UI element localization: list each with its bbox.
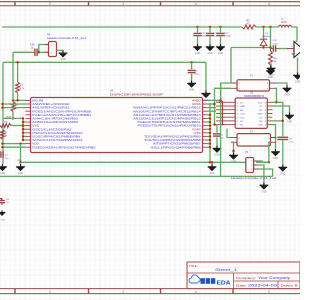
ground lower left (0, 211, 5, 222)
U1 left pin extensions (216, 101, 230, 126)
svg-text:GND: GND (209, 172, 215, 175)
resistor R5 (11, 102, 20, 112)
junction W1 cap C13 (219, 26, 221, 28)
ground C9 (213, 146, 222, 157)
junction W1/R10 branch (269, 26, 271, 28)
wire W1 right segment (256, 26, 279, 28)
ground U1 pin2 (285, 113, 294, 124)
svg-text:Header-Female-2.54_1x3: Header-Female-2.54_1x3 (231, 176, 277, 180)
wire W1 branch to W3 (270, 27, 272, 48)
wire opamp plus input to gnd (297, 58, 299, 73)
svg-text:5: 5 (268, 290, 270, 294)
svg-text:Date:: Date: (236, 284, 247, 288)
wire U2 right row1 (208, 99, 222, 101)
svg-text:PGED3/ASDA1/RP5/CN27/PMD7/RB5: PGED3/ASDA1/RP5/CN27/PMD7/RB5 (32, 145, 96, 149)
svg-text:GND: GND (268, 73, 274, 76)
svg-text:Company:: Company: (236, 276, 256, 280)
header P1 label (246, 151, 250, 154)
junction W1 cap C11 (209, 26, 211, 28)
svg-text:3: 3 (122, 2, 124, 6)
ground P4 (59, 50, 68, 61)
capacitor C10 (194, 27, 207, 44)
wire T1 pin1 west drop (221, 83, 231, 102)
svg-text:4: 4 (195, 290, 197, 294)
title block (187, 262, 300, 289)
ground C10 (193, 44, 202, 55)
svg-text:Your Company: Your Company (258, 276, 290, 280)
wire T2 pin1 west (227, 129, 231, 138)
wires U2 right pins to collector (208, 114, 212, 149)
wire U2 right row4 (208, 110, 217, 112)
ground left col (0, 164, 7, 175)
svg-text:GND: GND (261, 190, 267, 193)
IC U2 dsPIC33 (26, 98, 208, 153)
ground x20 col (16, 164, 25, 175)
wire U2 right collector (209, 103, 211, 162)
junction T2 gnd wire (232, 150, 234, 152)
op-amp U4 (287, 42, 304, 62)
capacitor C12 (271, 40, 289, 52)
wire P4 pin1 loop (39, 45, 49, 53)
resistor R4 (0, 122, 11, 128)
svg-text:GND: GND (60, 58, 66, 61)
svg-text:EN: EN (259, 121, 262, 123)
svg-text:VCC: VCC (258, 102, 263, 104)
wire R4 row (11, 124, 24, 126)
transformer T1 label (250, 75, 253, 78)
opamp pin3 number (291, 41, 297, 48)
svg-text:ZMM3V9: ZMM3V9 (262, 36, 272, 38)
svg-text:NC: NC (240, 125, 244, 127)
wire T1 pin3 to U1 pin (273, 88, 277, 102)
svg-text:3: 3 (122, 290, 124, 294)
ground railA mid (208, 164, 217, 175)
wire P4 right pin to gnd (57, 49, 64, 51)
resistor R1 (16, 82, 25, 93)
svg-text:VCC: VCC (240, 117, 245, 119)
ground opamp (293, 73, 302, 84)
capacitor C13 (217, 27, 232, 44)
junction U1 pin6/C7 column (282, 120, 284, 122)
wire C36 net down (12, 62, 14, 100)
ground C11 (206, 44, 215, 55)
svg-text:1000p: 1000p (224, 36, 231, 38)
ground W2 drop (201, 91, 210, 102)
svg-text:GND: GND (0, 172, 5, 175)
capacitor C6 lower left (0, 199, 10, 206)
svg-text:Drawn B: Drawn B (281, 284, 298, 288)
wire W2 left drop (2, 62, 4, 164)
wire rows 13 14 (1, 142, 25, 148)
svg-text:SN6505BDBVR: SN6505BDBVR (244, 94, 265, 98)
wire rail W2 (3, 61, 206, 63)
transformer T2 label (250, 131, 253, 134)
ground above T1 (267, 63, 276, 76)
svg-text:GND: GND (189, 88, 195, 91)
svg-text:2023-04-09: 2023-04-09 (248, 284, 277, 288)
svg-text:Sheet_1: Sheet_1 (215, 267, 238, 272)
wire bottom rail A east (256, 161, 269, 163)
wire col x20.5 down (19, 144, 21, 164)
capacitor C11 (206, 27, 219, 44)
svg-text:NC: NC (259, 110, 263, 112)
transformer T1 (231, 80, 276, 91)
junction R10 top (269, 46, 271, 48)
capacitor C36 (13, 44, 49, 57)
wire U2 right row3 (208, 107, 217, 109)
ground P1 (260, 182, 269, 193)
net label bottom left (17, 160, 22, 162)
svg-text:GND: GND (287, 120, 293, 123)
wire MCLR row (12, 99, 26, 101)
wire U1 pin1 west (216, 101, 222, 103)
wire T1 pin2 west drop (215, 88, 232, 124)
junction collector/railA (209, 161, 211, 163)
svg-text:GND: GND (218, 52, 224, 55)
wire U2 right row2 (208, 103, 216, 105)
IC U2 label (110, 88, 163, 96)
wire W3 drop from T1 area (230, 48, 232, 84)
wire gnd stub x20 (20, 162, 22, 164)
wire bottom rail B (0, 175, 273, 177)
zener D4 (260, 27, 272, 48)
wire P1 pin1 to railA (260, 161, 269, 162)
wire T2 pin4 gnd drop (275, 138, 277, 150)
inductor L1 (279, 19, 292, 28)
wire gnd stub railA mid (211, 161, 213, 164)
svg-text:2: 2 (49, 2, 51, 6)
svg-text:GND: GND (295, 80, 300, 83)
wire 3v3 row (3, 117, 24, 119)
wire T1 pin4 to gnd (276, 83, 288, 86)
ground T1 pin4 (283, 86, 292, 97)
svg-text:10uH: 10uH (281, 22, 287, 24)
wire U1 pin2 east to gnd (273, 106, 290, 113)
svg-text:CLK: CLK (258, 125, 263, 127)
svg-text:1R: 1R (274, 61, 277, 63)
capacitor C4 (1, 151, 9, 160)
wire T2 pin2 to gnd (231, 142, 234, 152)
svg-text:ASCL1/RP6/CN24/PMD6/RB6: ASCL1/RP6/CN24/PMD6/RB6 (151, 145, 201, 149)
svg-text:GND: GND (214, 153, 220, 156)
svg-text:Header-Female-0.54_1x2: Header-Female-0.54_1x2 (47, 36, 87, 40)
junction D4/W3 (262, 46, 264, 48)
wire U1 pin7 extension (213, 123, 216, 125)
svg-text:GND: GND (258, 114, 263, 116)
header P1 (231, 158, 277, 180)
wire left col upper rows (1, 103, 25, 109)
wire U1 pin7 to T2 pin4 (273, 125, 276, 138)
ground R10 (266, 68, 275, 79)
header P4 (45, 33, 87, 56)
wire C36 branch down (12, 52, 14, 62)
capacitor C9 mid (213, 125, 224, 146)
capacitor C8 on W2 (188, 61, 200, 80)
svg-text:5: 5 (268, 2, 270, 6)
net label +3V3 (6, 117, 12, 119)
ground C7 (278, 165, 287, 176)
wire bottom rail A (21, 161, 247, 163)
wire rail B corner up (220, 83, 222, 176)
junction W1 cap C10 (196, 26, 198, 28)
wire P1 pin2 to gnd (260, 165, 264, 182)
junction D4 top (262, 26, 264, 28)
ground C8 (187, 81, 196, 92)
wire col x23 (22, 117, 24, 141)
svg-text:CLK: CLK (240, 114, 245, 116)
svg-text:GND: GND (280, 172, 286, 175)
svg-text:GND: GND (18, 172, 24, 175)
svg-text:GND: GND (240, 106, 245, 108)
wire U1 pin6 east (273, 120, 283, 122)
transformer T2 (231, 134, 277, 146)
svg-text:EDA: EDA (217, 280, 232, 286)
svg-text:TITLE:: TITLE: (189, 264, 198, 268)
wire T2 pin3 to railA (269, 142, 271, 162)
wires x23 col to U2 (22, 121, 26, 141)
junction T1 pin3 branch (275, 101, 277, 103)
wire branch to C7 column (277, 102, 283, 136)
wire P1 pin3 to railB (260, 169, 273, 176)
resistor R6 (1, 130, 9, 140)
wire R5 to 3v3 row (12, 112, 14, 120)
IC U1 label (244, 92, 265, 98)
wire R1 branch (16, 61, 18, 82)
wire +3V3 rail W1 (2, 26, 242, 28)
junction P4 branch (38, 51, 40, 53)
svg-text:GND: GND (273, 157, 279, 160)
resistor R10 (269, 48, 279, 69)
svg-text:EN: EN (240, 110, 243, 112)
wire R1 to MCLR row (17, 93, 19, 100)
svg-text:DSPIC33FJ64GP802-E/SP: DSPIC33FJ64GP802-E/SP (110, 92, 163, 96)
junction rail A east (268, 161, 270, 163)
wire W3 supply to opamp (231, 47, 271, 49)
svg-text:GND: GND (284, 93, 290, 96)
svg-text:0.47u: 0.47u (273, 43, 279, 45)
ground T2 pin4 (271, 149, 280, 160)
svg-text:4: 4 (195, 2, 197, 6)
ground C13 (216, 44, 225, 55)
svg-text:GND: GND (207, 52, 213, 55)
svg-text:GND: GND (195, 52, 201, 55)
svg-text:AN5/C1IN+/RP3/CN7/RB3: AN5/C1IN+/RP3/CN7/RB3 (32, 120, 78, 124)
capacitor C7 (277, 137, 294, 164)
svg-text:2: 2 (49, 290, 51, 294)
svg-text:VDD: VDD (17, 160, 22, 162)
wire W2 drop to gnd (205, 62, 207, 90)
ground T2 (229, 153, 238, 164)
wire W1 after L1 to op-amp (292, 27, 298, 42)
svg-text:SOSCO/T1CK/CN0/PMA1/RA4: SOSCO/T1CK/CN0/PMA1/RA4 (32, 138, 82, 142)
resistor R7 (242, 20, 256, 29)
IC U1 SN6505 (230, 98, 273, 128)
